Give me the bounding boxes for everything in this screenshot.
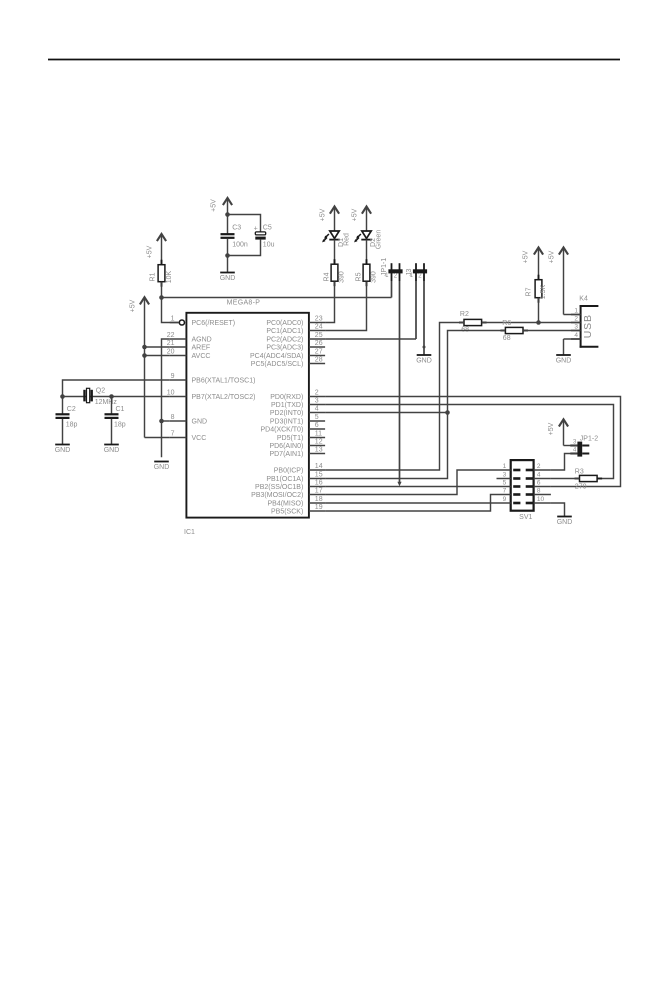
svg-text:+5V: +5V	[548, 422, 555, 435]
ground C3 GND	[220, 273, 236, 283]
svg-text:6: 6	[537, 480, 541, 487]
wire JP1-1 pin1 to reset	[391, 281, 393, 298]
svg-text:14: 14	[315, 463, 323, 470]
svg-text:24: 24	[315, 323, 323, 330]
wire R1 to reset node	[161, 282, 163, 298]
power +5V (JP1-2)	[548, 419, 568, 445]
pin 4 PD2(INT0)	[270, 405, 325, 417]
svg-text:18: 18	[315, 496, 323, 503]
resistor R7	[525, 275, 547, 303]
resistor R2	[459, 311, 487, 334]
svg-text:10: 10	[167, 389, 175, 396]
svg-text:1: 1	[171, 315, 175, 322]
wire C1 to ground	[111, 419, 113, 445]
svg-text:R3: R3	[575, 469, 584, 476]
wire reset to pin1	[162, 298, 180, 323]
pin 10 PB7(XTAL2/TOSC2)	[167, 389, 256, 401]
svg-text:GND: GND	[104, 447, 120, 454]
svg-text:GND: GND	[192, 419, 208, 426]
wire RESET row PB2 to SV1 pin5	[325, 486, 496, 488]
svg-text:17: 17	[315, 487, 323, 494]
svg-text:PC0(ADC0): PC0(ADC0)	[266, 320, 303, 327]
wire +5V to USB pin1	[564, 314, 580, 316]
svg-text:+5V: +5V	[146, 245, 153, 258]
svg-text:4: 4	[537, 472, 541, 479]
svg-text:+5V: +5V	[211, 199, 218, 212]
svg-text:1: 1	[503, 463, 507, 470]
wire AREF	[145, 346, 170, 348]
svg-text:AVCC: AVCC	[192, 353, 211, 360]
svg-text:25: 25	[315, 332, 323, 339]
svg-text:8: 8	[537, 488, 541, 495]
wire PD0 to SV1 pin6	[325, 397, 620, 487]
wire C2 down	[62, 397, 64, 415]
svg-text:12MHz: 12MHz	[95, 399, 118, 406]
svg-text:USB: USB	[582, 314, 594, 338]
jumper J3	[406, 263, 427, 281]
svg-text:K4: K4	[579, 296, 588, 303]
ground IC GND	[154, 462, 170, 472]
wire SCK jog	[325, 495, 496, 512]
pin 23 PC0(ADC0)	[266, 315, 325, 327]
pin 11 PD5(T1)	[277, 430, 325, 442]
svg-text:3: 3	[503, 472, 507, 479]
label IC1	[184, 529, 195, 536]
wire J3 pin2 to ground	[423, 281, 425, 355]
svg-text:13: 13	[315, 446, 323, 453]
svg-text:11: 11	[315, 430, 322, 437]
wire PD2 to D+ line	[325, 412, 447, 414]
svg-text:GND: GND	[556, 358, 572, 365]
wire MISO row PB4 to SV1 pin9	[325, 502, 496, 504]
node AVCC junction	[142, 353, 147, 358]
svg-text:GND: GND	[416, 358, 432, 365]
wire USB pin4 to ground	[564, 339, 580, 355]
pin 25 PC2(ADC2)	[266, 332, 325, 344]
wire crystal row	[63, 396, 170, 398]
wire J3 pin1 to PC2	[325, 281, 416, 339]
pin 19 PB5(SCK)	[271, 504, 325, 516]
wire R6 to USB pin3	[523, 330, 580, 332]
connector K4 USB	[571, 296, 598, 348]
pin 24 PC1(ADC1)	[266, 323, 325, 335]
svg-text:JP1-1: JP1-1	[381, 258, 388, 276]
pin 20 AVCC	[167, 348, 211, 360]
wire C3 bottom	[227, 239, 229, 256]
wire PD1 to R3	[325, 405, 613, 479]
svg-text:VCC: VCC	[192, 435, 207, 442]
svg-text:+5V: +5V	[320, 208, 327, 221]
svg-text:2: 2	[315, 389, 319, 396]
svg-text:15: 15	[315, 471, 323, 478]
svg-text:390: 390	[371, 271, 378, 283]
svg-text:22: 22	[167, 332, 175, 339]
wire AGND down	[162, 339, 170, 457]
ground C1 GND	[104, 445, 120, 455]
wire GND pin8	[162, 420, 170, 422]
power +5V (VCC)	[129, 297, 149, 437]
svg-text:PD1(TXD): PD1(TXD)	[271, 402, 303, 409]
svg-text:PB6(XTAL1/TOSC1): PB6(XTAL1/TOSC1)	[192, 378, 256, 385]
svg-text:PB3(MOSI/OC2): PB3(MOSI/OC2)	[251, 492, 303, 499]
svg-text:9: 9	[503, 496, 507, 503]
svg-text:1.5K: 1.5K	[540, 284, 547, 299]
svg-text:R7: R7	[525, 287, 532, 296]
wire D2 to R5	[366, 240, 368, 264]
svg-text:R4: R4	[324, 272, 331, 281]
pin 8 GND	[170, 414, 207, 426]
wire XTAL1	[63, 380, 170, 397]
svg-text:PB1(OC1A): PB1(OC1A)	[266, 476, 303, 483]
wire VCC	[145, 437, 170, 439]
svg-text:PB4(MISO): PB4(MISO)	[268, 501, 304, 508]
wire R4 down	[325, 282, 334, 323]
ground J3 GND	[416, 355, 432, 365]
pin 9 PB6(XTAL1/TOSC1)	[170, 373, 256, 385]
pin 1 PC6(/RESET)	[170, 315, 235, 327]
svg-text:28: 28	[315, 356, 323, 363]
svg-text:3: 3	[315, 397, 319, 404]
pin 21 AREF	[167, 340, 210, 352]
capacitor C5	[254, 224, 275, 248]
wire R3 to SV1 pin4	[551, 478, 580, 480]
wire JP1-1 pin2 to reset bus (arrow end)	[397, 281, 401, 486]
svg-text:R6: R6	[502, 320, 511, 327]
crystal Q2	[85, 388, 118, 406]
svg-text:+: +	[254, 226, 258, 233]
capacitor C3	[221, 224, 248, 248]
wire R6 to PB1	[325, 331, 505, 479]
power +5V (R1)	[146, 234, 166, 265]
svg-text:PC5(ADC5/SCL): PC5(ADC5/SCL)	[251, 361, 304, 368]
svg-text:21: 21	[167, 340, 175, 347]
node GND junction	[159, 419, 164, 424]
svg-text:PC2(ADC2): PC2(ADC2)	[266, 337, 303, 344]
node crystal right junction	[109, 394, 114, 399]
svg-text:PD4(XCK/T0): PD4(XCK/T0)	[261, 427, 304, 434]
svg-text:+5V: +5V	[549, 250, 556, 263]
node reset junction	[159, 295, 164, 300]
svg-text:Red: Red	[344, 233, 351, 246]
svg-text:10K: 10K	[166, 270, 173, 283]
label MEGA8-P	[227, 299, 261, 306]
svg-text:8: 8	[171, 414, 175, 421]
jumper JP1-1	[381, 258, 402, 281]
wire C5 bottom	[228, 240, 261, 256]
wire JP1-2 pin4 to SV1 pin2	[551, 454, 578, 471]
node C3 bottom junction	[225, 253, 230, 258]
svg-text:10: 10	[537, 496, 545, 503]
svg-text:+5V: +5V	[352, 208, 359, 221]
svg-text:Green: Green	[376, 230, 383, 250]
svg-text:PC6(/RESET): PC6(/RESET)	[192, 320, 236, 327]
svg-text:PB7(XTAL2/TOSC2): PB7(XTAL2/TOSC2)	[192, 394, 256, 401]
svg-text:MEGA8-P: MEGA8-P	[227, 299, 261, 306]
pin 17 PB3(MOSI/OC2)	[251, 487, 325, 499]
svg-text:C5: C5	[263, 224, 272, 231]
svg-text:J3: J3	[406, 269, 413, 277]
svg-text:GND: GND	[55, 447, 71, 454]
pin 16 PB2(SS/OC1B)	[255, 479, 325, 491]
wire R2 to PB0	[325, 323, 464, 471]
pin 12 PD6(AIN0)	[269, 438, 325, 450]
svg-text:SV1: SV1	[519, 514, 532, 521]
svg-text:C1: C1	[116, 406, 125, 413]
wire reset to JP1-1	[162, 297, 392, 299]
svg-text:C2: C2	[67, 406, 76, 413]
resistor R5	[356, 259, 378, 286]
svg-text:5: 5	[315, 414, 319, 421]
wire to GND (C3)	[227, 256, 229, 273]
IC IC1 MEGA8-P microcontroller body	[186, 313, 309, 518]
wire D1 to R4	[334, 240, 336, 264]
pin 27 PC4(ADC4/SDA)	[250, 348, 325, 360]
svg-text:JP1-2: JP1-2	[580, 436, 598, 443]
svg-text:AREF: AREF	[192, 345, 211, 352]
svg-text:26: 26	[315, 340, 323, 347]
svg-text:PB0(ICP): PB0(ICP)	[274, 468, 304, 475]
power +5V (D2)	[352, 207, 371, 232]
svg-text:270: 270	[575, 484, 587, 491]
node crystal left junction	[60, 394, 65, 399]
svg-text:GND: GND	[220, 275, 236, 282]
svg-text:4: 4	[574, 332, 578, 339]
pin 6 PD4(XCK/T0)	[261, 422, 326, 434]
connector SV1	[497, 460, 551, 521]
wire C2 to ground	[62, 419, 64, 445]
resistor R6	[500, 320, 528, 342]
wire MOSI jog	[325, 470, 496, 495]
pin 3 PD1(TXD)	[271, 397, 325, 409]
svg-text:1: 1	[574, 308, 578, 315]
svg-text:18p: 18p	[66, 422, 78, 429]
pin 5 PD3(INT1)	[270, 414, 325, 426]
svg-text:PB5(SCK): PB5(SCK)	[271, 509, 303, 516]
node J3 stray dot	[423, 346, 426, 349]
svg-text:PD0(RXD): PD0(RXD)	[270, 394, 303, 401]
svg-text:PC1(ADC1): PC1(ADC1)	[266, 328, 303, 335]
svg-text:23: 23	[315, 315, 323, 322]
wire AVCC	[145, 355, 170, 357]
svg-text:PD5(T1): PD5(T1)	[277, 435, 303, 442]
svg-text:9: 9	[171, 373, 175, 380]
power +5V (D1)	[320, 207, 339, 232]
node AREF junction	[142, 345, 147, 350]
resistor R4	[324, 259, 346, 286]
svg-text:Q2: Q2	[96, 388, 105, 395]
pin 15 PB1(OC1A)	[266, 471, 325, 483]
svg-text:6: 6	[315, 422, 319, 429]
svg-text:PD6(AIN0): PD6(AIN0)	[269, 443, 303, 450]
pin 7 VCC	[170, 430, 206, 442]
node R7 junction	[536, 320, 541, 325]
svg-text:PC4(ADC4/SDA): PC4(ADC4/SDA)	[250, 353, 303, 360]
svg-text:GND: GND	[557, 519, 573, 526]
svg-text:R2: R2	[460, 311, 469, 318]
pin 18 PB4(MISO)	[268, 496, 326, 508]
resistor R1	[149, 260, 172, 287]
svg-text:12: 12	[315, 438, 323, 445]
svg-text:PC3(ADC3): PC3(ADC3)	[266, 345, 303, 352]
wire R2 to USB pin2	[482, 322, 580, 324]
pin 2 PD0(RXD)	[270, 389, 325, 401]
pin 26 PC3(ADC3)	[266, 340, 325, 352]
svg-text:2: 2	[537, 463, 541, 470]
node C3 top junction	[225, 212, 230, 217]
resistor R3	[575, 469, 603, 491]
wire C5 top branch	[228, 215, 261, 232]
svg-text:7: 7	[171, 430, 175, 437]
capacitor C1	[105, 406, 126, 429]
power +5V (C3)	[211, 198, 233, 215]
pin 14 PB0(ICP)	[274, 463, 325, 475]
svg-text:GND: GND	[154, 464, 170, 471]
pin 28 PC5(ADC5/SCL)	[251, 356, 325, 368]
svg-text:7: 7	[503, 488, 507, 495]
wire C3 top	[227, 215, 229, 235]
svg-text:4: 4	[315, 405, 319, 412]
svg-text:PD3(INT1): PD3(INT1)	[270, 419, 303, 426]
wire R5 down	[325, 282, 366, 331]
node D+ PD2 junction	[445, 410, 450, 415]
jumper JP1-2	[570, 436, 598, 457]
svg-text:AGND: AGND	[192, 337, 212, 344]
LED D2	[354, 230, 383, 250]
wire SV1 pin10 to ground	[551, 503, 565, 517]
svg-text:R5: R5	[356, 272, 363, 281]
power +5V (R7)	[523, 247, 544, 279]
svg-text:19: 19	[315, 504, 323, 511]
ground K4 GND	[556, 355, 572, 365]
svg-text:IC1: IC1	[184, 529, 195, 536]
wire R7 down	[538, 298, 540, 323]
ground SV1 GND	[557, 517, 573, 527]
svg-text:3: 3	[574, 324, 578, 331]
svg-text:68: 68	[503, 335, 511, 342]
pin 22 AGND	[167, 332, 212, 344]
ground C2 GND	[55, 445, 71, 455]
svg-text:16: 16	[315, 479, 323, 486]
svg-text:+5V: +5V	[129, 299, 136, 312]
svg-text:R1: R1	[149, 272, 156, 281]
svg-text:100n: 100n	[232, 241, 248, 248]
power +5V (USB)	[549, 247, 569, 314]
svg-text:C3: C3	[232, 224, 241, 231]
svg-text:PD2(INT0): PD2(INT0)	[270, 410, 303, 417]
svg-text:+5V: +5V	[523, 250, 530, 263]
svg-text:27: 27	[315, 348, 323, 355]
wire C1 down	[111, 397, 113, 415]
svg-text:10u: 10u	[263, 241, 275, 248]
svg-text:PD7(AIN1): PD7(AIN1)	[269, 451, 303, 458]
svg-text:20: 20	[167, 348, 175, 355]
wire +5V to JP1-2 pin3	[564, 445, 578, 447]
svg-text:5: 5	[503, 480, 507, 487]
svg-text:390: 390	[339, 271, 346, 283]
horizontal rule	[48, 59, 620, 61]
pin 13 PD7(AIN1)	[269, 446, 325, 458]
LED D1	[322, 231, 351, 247]
svg-text:2: 2	[574, 316, 578, 323]
svg-text:PB2(SS/OC1B): PB2(SS/OC1B)	[255, 484, 303, 491]
svg-text:18p: 18p	[114, 422, 126, 429]
capacitor C2	[56, 406, 78, 429]
